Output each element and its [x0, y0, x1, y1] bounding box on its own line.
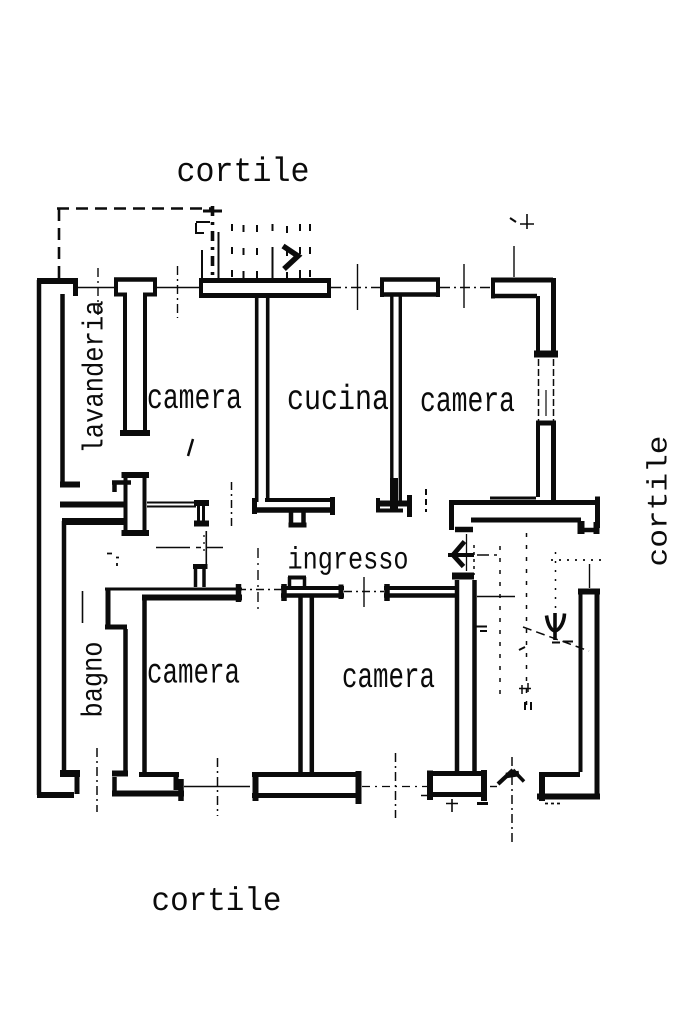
svg-text:bagno: bagno [78, 642, 111, 718]
svg-text:camera: camera [147, 379, 242, 419]
wall: camera2 top [491, 278, 553, 283]
dashed corner tick marks [203, 210, 222, 213]
wall: lavanderia right wall bottom cap [120, 430, 150, 436]
svg-text:cortile: cortile [152, 883, 282, 920]
svg-text:ingresso: ingresso [288, 544, 409, 579]
wall: bottom-left step vertical [75, 777, 80, 794]
svg-text:cucina: cucina [287, 380, 389, 420]
axis: cucina balcony door [331, 287, 380, 289]
wall: lavanderia header top line [114, 277, 157, 282]
wall: left outer top hook [73, 281, 78, 296]
wall: stair right wall top cap [578, 589, 600, 595]
wall: lavanderia header bottom edges [114, 293, 157, 297]
jamb: bagno door stub [196, 566, 205, 587]
wall: cameraB bottom [427, 771, 487, 776]
door line bagno vertical [82, 591, 84, 623]
wall: lavanderia door jamb bar [60, 482, 80, 488]
small scan ticks near entrance [421, 796, 458, 813]
psi symbol [553, 613, 557, 640]
wall: left outer wall inner line lower [62, 521, 67, 771]
axis: camera2 balcony door [440, 287, 491, 289]
wall: cameraB left [452, 573, 474, 580]
wall: left outer wall top cap [37, 278, 78, 284]
sill: lavanderia window line [78, 287, 114, 289]
axis: cameraA terrace door [217, 758, 219, 816]
wall: camera2 right lower [536, 421, 556, 426]
door line bagno [156, 547, 223, 549]
wall: cameraAB bottom middle [252, 772, 360, 777]
wall: cucina bottom [265, 498, 334, 502]
wall: camera2 right window sill [534, 351, 558, 358]
wall: cameraA top thick line [142, 595, 242, 601]
wall: lavanderia header left end [114, 278, 118, 297]
thin line right of cameraB wall [477, 596, 515, 598]
axis: lavanderia window centerline [97, 268, 99, 316]
wall: ingresso top left jamb [449, 500, 454, 530]
wall: cameraA top thin line [105, 588, 242, 591]
pier: corridor jamb tall [122, 472, 150, 478]
dotted opening right side [551, 559, 601, 561]
wall: bagno-cameraA divider [126, 599, 145, 772]
wall: lavanderia bottom [60, 502, 124, 508]
wall: stair bottom [544, 772, 580, 777]
window line above stair wall [589, 564, 591, 588]
jamb: ingresso n-shaped stub [288, 576, 306, 580]
wall: stair right wall [595, 591, 600, 797]
wall: left outer wall vertical [37, 280, 42, 795]
marks above ingresso top wall [425, 489, 427, 512]
wall: cucina-camera2 divider [392, 295, 401, 502]
wall: small L above lavanderia bottom [112, 482, 131, 492]
door: entrance swing [498, 770, 513, 784]
wall: bottom-left step bar [60, 770, 80, 777]
wall: camera1-cucina divider [257, 296, 268, 502]
dashed cortile boundary top horizontal [57, 207, 213, 210]
wall: bagno top [62, 518, 124, 525]
dashed cortile boundary right vertical [211, 206, 215, 278]
wall: cucina top header [380, 277, 440, 282]
pier: cucina door jamb [291, 510, 304, 524]
axis: corridor door centerline [231, 482, 233, 528]
svg-text:cortile: cortile [177, 154, 310, 192]
wall: left outer wall inner line upper [60, 294, 65, 482]
axis: bagno bottom door centerline [96, 748, 98, 812]
dashed cortile boundary left vertical [58, 208, 61, 278]
svg-text:camera: camera [342, 658, 435, 698]
dotted door line below cameraB jamb [473, 545, 475, 575]
window axis marks above camera2 [513, 246, 515, 277]
axis: ingresso-cameraA door [238, 589, 284, 591]
stairs diagonal dashed [523, 627, 589, 651]
wall: ingresso top [449, 500, 599, 505]
arrow: ingresso entry chevron [453, 542, 465, 567]
wall: cameraA-cameraB divider [301, 597, 312, 772]
wall: cucina bottom right T [376, 501, 412, 507]
pier: corridor door jamb [194, 500, 209, 506]
window: camera2 right window thin lines [539, 359, 554, 421]
wall: camera2 right upper [551, 278, 556, 357]
axis: ingresso-cameraB door [344, 591, 384, 593]
wall: bottom-left bottom cap [37, 792, 74, 798]
svg-text:cortile: cortile [645, 436, 676, 567]
svg-text:camera: camera [147, 654, 240, 694]
wall: cameraA bottom [112, 771, 128, 777]
wall: ingresso top right outer cap [595, 497, 600, 529]
pier: stair door jamb [578, 521, 585, 534]
tick mark below camera1 label [188, 439, 193, 456]
wall: bagno right step vertical [106, 589, 111, 627]
svg-text:lavanderia: lavanderia [79, 301, 112, 454]
wall: ingresso bottom bar1 [281, 586, 344, 590]
railing dashed verticals above camera1 top wall [202, 232, 219, 278]
sill: cameraA terrace door [184, 786, 250, 788]
axis: camera1 balcony door centerline [177, 266, 179, 318]
wall: ingresso bottom bar2 [384, 586, 456, 590]
rail: corridor double thin lines [147, 503, 196, 507]
wall: camera1 top (balcony header) [199, 278, 331, 283]
scan specks in bagno [107, 554, 119, 567]
sill: camera1 balcony door line [157, 287, 199, 289]
axis: cameraB bottom door [395, 753, 397, 818]
wall: lavanderia header right end [153, 278, 157, 297]
small ticks in stair area [475, 627, 487, 632]
door chevron arrow north balcony [283, 246, 298, 269]
wall: lavanderia right wall lines [125, 294, 145, 434]
wall: cameraA top right cap [236, 584, 242, 602]
wall: bagno right step bar [105, 625, 127, 630]
stairs dashed verticals [499, 546, 501, 700]
svg-text:camera: camera [420, 382, 515, 422]
